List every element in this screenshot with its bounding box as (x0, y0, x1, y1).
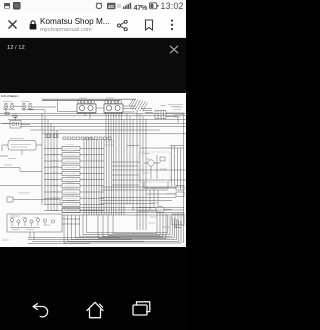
svg-text:Int th of Diagram: Int th of Diagram (1, 94, 19, 98)
svg-text:4G: 4G (108, 4, 115, 9)
